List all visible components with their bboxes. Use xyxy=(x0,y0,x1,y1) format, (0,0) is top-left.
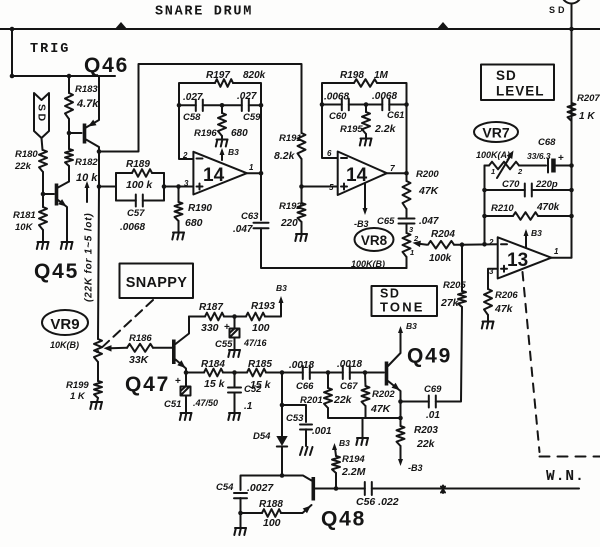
capacitor C59 xyxy=(242,100,249,111)
svg-text:R190: R190 xyxy=(188,203,212,214)
node Q46 base junction xyxy=(67,131,72,136)
svg-text:2: 2 xyxy=(517,167,523,176)
power B3 R194 xyxy=(332,443,337,450)
capacitor C63 xyxy=(254,223,269,229)
svg-text:SD: SD xyxy=(549,5,568,15)
node R189 input xyxy=(97,184,102,189)
resistor R189 xyxy=(132,169,152,177)
ground below R195 xyxy=(360,139,372,146)
svg-text:Q49: Q49 xyxy=(407,345,452,368)
svg-text:.0018: .0018 xyxy=(289,360,314,371)
resistor R205 xyxy=(458,291,466,307)
flag SD signal name xyxy=(34,93,49,138)
svg-text:100K(A): 100K(A) xyxy=(476,150,510,160)
svg-text:100: 100 xyxy=(263,517,281,529)
ground below Q45 emitter xyxy=(61,242,73,249)
node VR7 mix xyxy=(482,242,487,247)
capacitor C60 xyxy=(342,99,349,110)
wire R182 bottom xyxy=(68,166,70,182)
wire R205 down to C69 line xyxy=(436,307,462,402)
wire C55 top lead xyxy=(234,317,236,329)
svg-text:R193: R193 xyxy=(251,301,275,312)
power B3 Q47 xyxy=(279,296,284,303)
svg-text:C67: C67 xyxy=(340,381,358,392)
node R203 top xyxy=(398,416,403,421)
wire to R188 xyxy=(241,512,263,514)
box SD TONE xyxy=(372,286,438,316)
svg-text:7: 7 xyxy=(390,163,396,173)
wire top bus xyxy=(0,28,600,30)
capacitor C70 xyxy=(525,184,532,197)
resistor R207 xyxy=(568,103,576,121)
transistor Q45 collector lead xyxy=(58,182,69,188)
wire R182 top xyxy=(68,133,70,149)
wire Q46 node down to VR9 xyxy=(98,187,99,340)
svg-text:330: 330 xyxy=(201,322,219,334)
node SD rail / top bus xyxy=(569,27,574,32)
resistor R199 xyxy=(94,381,102,398)
svg-text:C57: C57 xyxy=(127,208,145,219)
svg-text:R196: R196 xyxy=(194,128,217,139)
resistor R194 xyxy=(332,456,340,473)
wire C68 to rail xyxy=(556,165,572,167)
svg-text:5: 5 xyxy=(329,183,334,192)
capacitor C53 xyxy=(300,425,312,430)
svg-text:B3: B3 xyxy=(531,228,542,238)
svg-text:10K: 10K xyxy=(15,222,34,233)
svg-text:TONE: TONE xyxy=(380,300,425,315)
svg-text:22k: 22k xyxy=(14,161,32,172)
svg-text:B3: B3 xyxy=(339,438,350,448)
wire ground drop xyxy=(362,418,364,438)
transistor Q47 emitter lead xyxy=(176,360,187,373)
resistor R197 xyxy=(215,79,233,87)
svg-text:+: + xyxy=(175,376,181,387)
resistor R186 xyxy=(127,344,153,352)
svg-text:R197: R197 xyxy=(206,70,230,81)
op-amp U3 plus xyxy=(501,266,507,272)
svg-text:33K: 33K xyxy=(129,354,150,366)
resistor R202 xyxy=(362,386,370,406)
svg-text:680: 680 xyxy=(185,217,203,229)
resistor R200 xyxy=(403,181,411,209)
resistor R204 xyxy=(428,241,454,249)
wire twin-T2 R198 loop xyxy=(322,83,407,105)
resistor R203 xyxy=(397,426,405,446)
svg-text:.0068: .0068 xyxy=(324,92,349,103)
svg-text:Q46: Q46 xyxy=(84,54,129,77)
svg-text:+: + xyxy=(558,153,564,164)
resistor R188 xyxy=(262,509,281,517)
svg-text:2: 2 xyxy=(488,238,494,247)
svg-text:2.2k: 2.2k xyxy=(374,123,397,135)
potentiometer VR9 wiper arrow xyxy=(110,347,127,349)
wire mix down to R205 xyxy=(461,245,463,291)
transistor Q46 collector lead xyxy=(86,140,99,152)
capacitor C58 xyxy=(196,100,203,111)
wire C66 to C67 xyxy=(310,372,343,374)
transistor Q48 collector lead xyxy=(282,476,312,481)
svg-text:15 k: 15 k xyxy=(204,378,226,390)
svg-text:W.N.: W.N. xyxy=(546,469,585,485)
ground below R196 xyxy=(216,140,228,147)
svg-text:6: 6 xyxy=(327,149,332,158)
svg-text:B3: B3 xyxy=(228,147,239,157)
transistor Q46 emitter arrow xyxy=(88,120,97,127)
wire node to pin5 xyxy=(302,186,338,188)
wire R192 bottom lead xyxy=(301,222,303,234)
wire R184 to node xyxy=(223,372,247,374)
transistor Q46 emitter lead xyxy=(86,76,99,128)
svg-text:220p: 220p xyxy=(535,179,558,190)
svg-text:13: 13 xyxy=(507,250,528,271)
wire twin-T2 rail xyxy=(322,104,407,106)
capacitor C51 electrolytic xyxy=(181,387,191,396)
wire to R189 block xyxy=(99,186,116,188)
svg-text:R189: R189 xyxy=(126,159,150,170)
transistor Q47 emitter arrow xyxy=(177,360,185,368)
node C52 tap xyxy=(232,370,237,375)
ground below C54 xyxy=(234,528,246,535)
node C68 rail xyxy=(569,163,574,168)
wire R201/R202 bottom bus xyxy=(328,408,401,418)
wire VR7 left lead xyxy=(485,165,490,167)
svg-text:8.2k: 8.2k xyxy=(274,150,296,162)
svg-text:.0068: .0068 xyxy=(120,222,145,233)
capacitor C69 xyxy=(429,396,436,408)
svg-text:47K: 47K xyxy=(370,403,392,415)
transistor Q47 base bar xyxy=(172,340,176,365)
svg-text:R184: R184 xyxy=(201,359,225,370)
svg-text:R204: R204 xyxy=(431,229,455,240)
svg-text:1 K: 1 K xyxy=(70,391,86,402)
svg-text:.0018: .0018 xyxy=(337,359,362,370)
wire R195 top lead xyxy=(365,105,367,113)
wire VR7 to C68 xyxy=(519,165,546,167)
svg-text:.0068: .0068 xyxy=(372,91,397,102)
svg-text:1: 1 xyxy=(410,248,414,257)
wire D54 to Q48 node xyxy=(281,447,283,476)
svg-text:VR8: VR8 xyxy=(361,233,388,248)
wire trig drop xyxy=(11,29,13,76)
wire flag to R180 xyxy=(42,138,43,150)
capacitor C54 xyxy=(234,493,247,498)
node R210 left xyxy=(482,214,487,219)
wire twin-T1 rail xyxy=(179,104,261,106)
svg-text:100 k: 100 k xyxy=(126,179,153,191)
ground below C51 xyxy=(180,413,192,420)
svg-text:(22K for 1~5 lot): (22K for 1~5 lot) xyxy=(84,213,95,302)
svg-text:R198: R198 xyxy=(340,70,364,81)
wire C54 ground lead xyxy=(240,513,242,528)
wire C55 bottom lead xyxy=(234,338,236,351)
svg-text:.047: .047 xyxy=(419,216,439,227)
svg-text:220: 220 xyxy=(280,218,298,229)
wire R200 to C65 xyxy=(406,209,408,217)
capacitor C65 xyxy=(399,219,415,224)
callout VR9 ellipse xyxy=(42,310,88,335)
capacitor C52 xyxy=(228,388,241,393)
svg-text:R183: R183 xyxy=(75,84,98,95)
wire VR8 bottom xyxy=(406,257,408,268)
wire U2 feedback riser xyxy=(406,105,408,174)
svg-text:C52: C52 xyxy=(244,384,262,395)
node R210 rail xyxy=(569,214,574,219)
wire R181 leads xyxy=(42,194,44,242)
svg-text:R205: R205 xyxy=(443,280,466,291)
resistor R193 xyxy=(246,313,265,321)
wire D54 branch top xyxy=(281,373,283,437)
wire R186 to Q47 base xyxy=(153,347,172,349)
ground below R206 xyxy=(482,322,494,329)
node R201 tap xyxy=(326,370,331,375)
wire C57 bottom branch xyxy=(116,200,164,202)
ground below C52 xyxy=(228,413,240,420)
note star on output line xyxy=(441,486,445,494)
resistor R196 xyxy=(218,113,226,136)
transistor Q48 emitter arrow xyxy=(303,506,311,514)
svg-text:C59: C59 xyxy=(243,112,261,123)
wire R210 line xyxy=(485,215,572,217)
wire R180 to Q45 base xyxy=(43,172,54,194)
svg-text:.1: .1 xyxy=(244,401,253,412)
wire U3 pin3 to R206 xyxy=(488,269,498,289)
svg-text:1 K: 1 K xyxy=(579,111,595,122)
svg-text:Q45: Q45 xyxy=(34,260,79,283)
wire R203 to -B3 xyxy=(400,446,402,461)
svg-text:820k: 820k xyxy=(243,70,266,81)
wire R187 to node xyxy=(224,316,246,318)
node rail mid xyxy=(220,103,225,108)
wire U2 output xyxy=(387,172,407,174)
capacitor C67 xyxy=(343,366,350,379)
svg-text:.027: .027 xyxy=(183,92,203,103)
wire C53 bottom lead xyxy=(305,429,307,446)
svg-text:SD: SD xyxy=(36,104,48,124)
resistor R190 xyxy=(175,202,183,221)
svg-text:470k: 470k xyxy=(536,202,560,213)
transistor Q49 emitter arrow xyxy=(392,383,400,391)
svg-text:C61: C61 xyxy=(387,110,404,121)
resistor R185 xyxy=(247,369,266,377)
op-amp U1 triangle xyxy=(193,152,246,195)
svg-text:47/16: 47/16 xyxy=(243,338,268,348)
wire R189 block right bar xyxy=(163,173,165,201)
wire R204 to mix node xyxy=(454,244,462,246)
svg-text:R207: R207 xyxy=(577,93,600,104)
wire R190 top lead xyxy=(178,187,180,203)
node Q47 emitter xyxy=(184,370,189,375)
svg-text:1: 1 xyxy=(554,247,559,256)
svg-text:R210: R210 xyxy=(491,203,514,214)
wire R193 to B3 xyxy=(265,301,281,317)
resistor R210 xyxy=(513,212,538,220)
wire VR9 to R199 xyxy=(97,362,99,381)
wire C69 to Q49 emitter xyxy=(401,401,429,403)
wire U1 feedback riser xyxy=(260,105,262,173)
svg-text:2: 2 xyxy=(182,151,188,160)
svg-text:2.2M: 2.2M xyxy=(341,466,366,478)
wire Q47 collector to R187 xyxy=(189,316,205,318)
resistor R182 xyxy=(65,149,73,166)
node mix xyxy=(460,242,465,247)
svg-text:C66: C66 xyxy=(296,381,314,392)
node pin5 junction xyxy=(299,184,304,189)
power B3 Q49 xyxy=(398,326,403,333)
node C66/D54 tap xyxy=(280,370,285,375)
resistor R180 xyxy=(39,150,47,172)
svg-text:SNAPPY: SNAPPY xyxy=(126,275,187,291)
wire emitter to R184 xyxy=(186,372,204,374)
svg-text:TRIG: TRIG xyxy=(30,42,70,57)
resistor R191 xyxy=(298,133,306,159)
node block out xyxy=(162,184,167,189)
wire C51 bottom lead xyxy=(185,396,187,414)
svg-text:SD: SD xyxy=(496,68,517,83)
svg-text:27k: 27k xyxy=(440,297,460,309)
svg-text:100: 100 xyxy=(252,322,270,334)
svg-text:C69: C69 xyxy=(424,384,442,395)
svg-text:R203: R203 xyxy=(414,425,438,436)
wire R196 top lead xyxy=(221,105,223,113)
node arrow on top bus right xyxy=(437,22,450,30)
wire R194 bottom lead xyxy=(335,473,337,489)
op-amp U2 minus xyxy=(341,157,347,159)
transistor Q45 base bar xyxy=(55,184,59,206)
svg-text:.47/50: .47/50 xyxy=(193,398,218,408)
svg-text:B3: B3 xyxy=(276,283,287,293)
svg-text:22k: 22k xyxy=(416,438,436,450)
svg-text:R182: R182 xyxy=(75,157,98,168)
svg-text:C63: C63 xyxy=(241,211,259,222)
wire twin-T1 left down to pin2 xyxy=(179,105,193,159)
wire Q46 collector to bus riser xyxy=(99,64,302,152)
op-amp U1 minus xyxy=(197,158,203,160)
wire R189 block left bar xyxy=(115,173,117,201)
svg-text:.01: .01 xyxy=(426,410,440,421)
wire U1 out down to C63 xyxy=(260,173,262,220)
svg-text:C55: C55 xyxy=(215,339,233,350)
node arrow on top bus left xyxy=(115,22,128,30)
svg-text:C58: C58 xyxy=(183,112,201,123)
wire block to pin3 xyxy=(164,186,193,188)
svg-text:.0027: .0027 xyxy=(247,482,274,494)
svg-text:R191: R191 xyxy=(279,133,302,144)
op-amp U3 minus xyxy=(501,243,507,245)
svg-text:Q47: Q47 xyxy=(125,373,170,396)
transistor Q46 base bar xyxy=(83,124,87,144)
svg-text:R186: R186 xyxy=(129,333,152,344)
wire C63 to bottom rail xyxy=(261,228,407,268)
node U1 output xyxy=(259,171,264,176)
potentiometer VR7 element xyxy=(489,162,519,170)
svg-text:.001: .001 xyxy=(312,426,332,437)
wire C70 line xyxy=(485,189,572,191)
ground below C55 xyxy=(228,350,240,357)
resistor R206 xyxy=(484,289,492,315)
capacitor C61 xyxy=(382,99,389,110)
op-amp U2 triangle xyxy=(338,152,387,196)
wire C54 bottom lead xyxy=(240,498,242,513)
svg-text:R187: R187 xyxy=(199,302,223,313)
svg-text:C53: C53 xyxy=(286,413,304,424)
ground below R199 xyxy=(90,402,102,409)
power -B3 Q49 xyxy=(398,459,403,466)
wire twin-T2 left down to pin6 xyxy=(322,105,338,159)
node Q45 base junction xyxy=(41,192,46,197)
potentiometer VR8 wiper arrow xyxy=(417,244,427,245)
wire C53 lead xyxy=(282,405,306,422)
svg-text:C60: C60 xyxy=(329,111,347,122)
wire R189 top branch xyxy=(116,172,164,174)
svg-text:10K(B): 10K(B) xyxy=(50,340,79,350)
node Q46 collector xyxy=(97,149,102,154)
note arrow to 10k xyxy=(86,186,88,202)
node Q48 collector junction xyxy=(280,473,285,478)
svg-text:LEVEL: LEVEL xyxy=(496,84,545,99)
svg-text:R188: R188 xyxy=(259,499,283,510)
wire SD rail vertical xyxy=(571,4,573,258)
node rail right xyxy=(259,103,264,108)
svg-text:VR7: VR7 xyxy=(482,125,509,141)
node rail2 mid xyxy=(364,102,369,107)
link SNAPPY to VR9 dashed xyxy=(97,300,153,352)
wire R203 top lead xyxy=(400,418,402,426)
potentiometer VR8 element xyxy=(403,233,411,257)
resistor R195 xyxy=(362,112,370,134)
resistor R184 xyxy=(204,369,223,377)
transistor Q49 emitter lead xyxy=(388,381,401,418)
transistor Q49 base bar xyxy=(385,362,389,386)
link W.N. dashed horizontal xyxy=(540,456,600,458)
svg-text:C54: C54 xyxy=(216,482,234,493)
node R202 tap xyxy=(363,370,368,375)
node C54/R188 xyxy=(238,511,243,516)
ground mid bottom xyxy=(356,438,368,445)
wire R206 bottom lead xyxy=(487,315,489,321)
resistor R187 xyxy=(205,313,224,321)
node U2 output xyxy=(404,171,409,176)
connector SD output circle xyxy=(562,0,582,4)
wire U1 output xyxy=(247,172,261,174)
transistor Q49 collector lead xyxy=(388,331,401,366)
wire twin-T1 R197 loop xyxy=(179,83,261,105)
wire R188 to Q48 emitter xyxy=(281,505,312,513)
capacitor C68 electrolytic xyxy=(548,159,556,173)
svg-text:R185: R185 xyxy=(248,359,272,370)
wire R202 top lead xyxy=(364,373,367,387)
box SNAPPY xyxy=(120,264,194,299)
svg-text:100K(B): 100K(B) xyxy=(351,259,385,269)
svg-text:1: 1 xyxy=(249,163,254,172)
wire R199 bottom lead xyxy=(97,398,98,402)
wire R191 to node xyxy=(301,159,303,187)
power -B3 opamp2 xyxy=(364,183,366,211)
wire C54 top lead xyxy=(241,476,283,491)
wire R183 top lead xyxy=(68,76,70,93)
svg-text:+: + xyxy=(224,322,230,333)
svg-text:1: 1 xyxy=(491,167,495,176)
svg-text:22k: 22k xyxy=(333,394,353,406)
svg-text:C70: C70 xyxy=(502,179,520,190)
wire C65 to VR8 xyxy=(406,224,408,233)
svg-text:680: 680 xyxy=(231,128,248,139)
wire trig line xyxy=(12,75,115,77)
node R183 top xyxy=(67,74,72,79)
svg-text:C65: C65 xyxy=(377,216,395,227)
svg-text:R195: R195 xyxy=(340,124,363,135)
transistor Q47 collector lead xyxy=(176,317,190,345)
